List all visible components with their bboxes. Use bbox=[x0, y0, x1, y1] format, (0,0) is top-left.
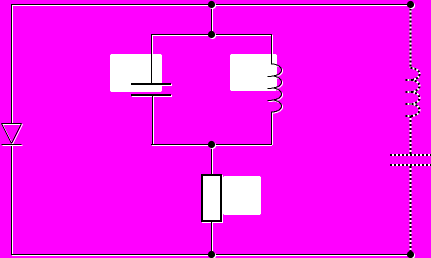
diode D1 (left branch, cathode down) bbox=[2, 124, 23, 146]
wire: capacitor C2 to bottom-right node (dashed) bbox=[410, 166, 412, 255]
wire: vertical from top net to inner loop top node bbox=[212, 4, 213, 35]
label box for capacitor C1 bbox=[110, 54, 162, 92]
wire: L2 to capacitor C2 (dashed) bbox=[410, 116, 412, 154]
wire: vertical from inner loop bottom node to resistor R1 top bbox=[212, 144, 213, 176]
wire: bottom horizontal net bbox=[11, 255, 412, 256]
wire: inner loop top horizontal bbox=[151, 35, 272, 36]
wire: left vertical lower segment (diode cathode to bottom-left corner) bbox=[12, 145, 13, 255]
label box for inductor L1 bbox=[230, 54, 277, 91]
junction dot: bottom net / resistor branch bbox=[208, 251, 216, 258]
junction dot: bottom net / right branch bbox=[407, 251, 415, 258]
wire: inner loop left vertical lower (capacitor C1 bottom plate to bottom node) bbox=[153, 96, 154, 145]
selected right branch: wire from top-right node to inductor L2 (dashed black/white) bbox=[410, 5, 412, 69]
wire: vertical from resistor R1 bottom to bottom net bbox=[212, 221, 213, 255]
capacitor C1 plates bbox=[131, 84, 172, 96]
capacitor C2 (selected, dashed plates) bbox=[390, 155, 431, 165]
resistor R1 (vertical box) bbox=[202, 175, 222, 222]
wire: top horizontal net bbox=[11, 5, 412, 6]
junction dot: top net / right branch bbox=[407, 1, 415, 9]
wire: inner loop bottom horizontal bbox=[151, 145, 272, 146]
wire: left vertical upper segment (top-left corner to diode anode) bbox=[12, 4, 13, 124]
inductor L1 (coil on inner loop right vertical) bbox=[268, 34, 283, 145]
label box for resistor R1 bbox=[223, 176, 261, 215]
inductor L2 (selected, dashed coil) bbox=[406, 68, 420, 116]
junction dot: inner loop bottom node bbox=[208, 141, 216, 149]
wire: inner loop left vertical upper (to capacitor C1 top plate) bbox=[152, 34, 153, 84]
junction dot: inner loop top node bbox=[208, 31, 216, 39]
junction dot: top net / inner loop branch bbox=[208, 1, 216, 9]
